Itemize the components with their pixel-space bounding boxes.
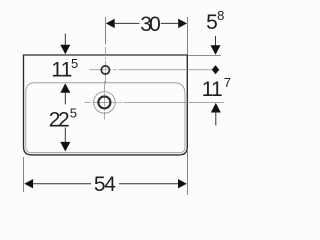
svg-text:5: 5 bbox=[70, 105, 77, 120]
svg-text:5: 5 bbox=[206, 11, 218, 34]
svg-text:11: 11 bbox=[51, 58, 72, 81]
svg-text:8: 8 bbox=[217, 8, 224, 23]
svg-text:5: 5 bbox=[71, 56, 78, 71]
svg-text:22: 22 bbox=[49, 109, 70, 132]
svg-text:11: 11 bbox=[202, 78, 223, 101]
svg-text:54: 54 bbox=[94, 173, 116, 196]
svg-text:30: 30 bbox=[140, 13, 161, 36]
svg-text:7: 7 bbox=[224, 75, 231, 90]
